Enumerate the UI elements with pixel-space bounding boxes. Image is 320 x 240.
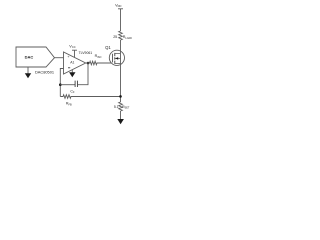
minus input sign: [68, 67, 70, 69]
resistor RISO: [86, 61, 113, 65]
node source / feedback junction: [119, 95, 122, 98]
Vcc supply bar: [72, 49, 77, 51]
wire inverting input to feedback node: [60, 69, 63, 97]
transistor Q1 body circle: [109, 50, 124, 65]
Q1 gate bar: [112, 54, 114, 63]
resistor RFB: [60, 95, 120, 99]
ground (DAC): [25, 73, 31, 78]
Q1 channel segments: [114, 53, 116, 64]
capacitor CF: [75, 81, 77, 87]
wire cap branch left: [60, 84, 75, 86]
node feedback tap: [59, 83, 62, 86]
wire Vdd to RLOAD: [120, 9, 122, 31]
wire RSET to ground: [120, 111, 122, 119]
svg-text:CF: CF: [70, 89, 75, 94]
op-amp negative supply stem: [71, 70, 73, 73]
svg-text:+: +: [67, 55, 69, 59]
Vdd supply bar: [118, 8, 123, 10]
node op-amp output: [87, 62, 90, 65]
svg-text:25: 25: [113, 35, 117, 39]
wire RLOAD to Q1 drain: [120, 40, 122, 53]
ground (RSET): [117, 119, 124, 124]
svg-text:A1: A1: [70, 60, 74, 64]
svg-text:TLV9061: TLV9061: [79, 51, 93, 55]
Q1 drain stub: [115, 52, 121, 54]
wire Q1 source down to RSET node: [120, 64, 122, 103]
wire cap branch right up to output: [77, 63, 88, 85]
svg-text:5.1: 5.1: [114, 105, 119, 109]
resistor RSET: [119, 102, 123, 111]
svg-text:DAC80501: DAC80501: [35, 70, 54, 75]
Q1 body diode arrow: [115, 57, 121, 59]
Q1 source stub: [115, 63, 121, 65]
wire DAC ground stem: [27, 67, 29, 74]
Vcc supply stem: [74, 50, 76, 57]
op-amp A1 TLV9061: [64, 52, 86, 74]
svg-text:Q1: Q1: [105, 45, 111, 50]
wire Q1 drain-source rail through circle: [120, 53, 122, 63]
svg-text:DAC: DAC: [25, 55, 34, 60]
resistor RLOAD: [119, 31, 123, 40]
wire DAC output to op-amp non-inverting input: [55, 57, 64, 59]
ground (op-amp): [69, 72, 75, 77]
DAC U2 block: [16, 47, 55, 67]
